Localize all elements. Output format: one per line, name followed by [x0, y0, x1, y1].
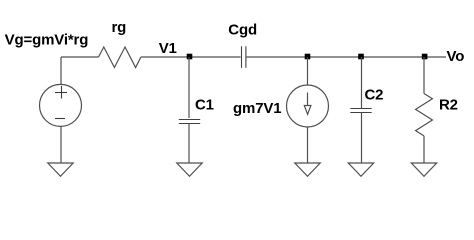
wire junction down to C2: [361, 57, 363, 108]
junction at C2: [358, 54, 364, 60]
svg-text:C1: C1: [195, 96, 214, 113]
junction at V1: [187, 54, 193, 60]
capacitor Cgd: [242, 46, 246, 68]
current source gm7V1 circle: [287, 85, 329, 127]
svg-text:C2: C2: [365, 86, 384, 103]
wire V1 node down to C1: [188, 57, 190, 118]
svg-text:V1: V1: [159, 40, 177, 57]
junction at current source: [305, 54, 311, 60]
ground under C2: [348, 163, 373, 176]
capacitor C1: [179, 120, 200, 124]
ground under C1: [177, 163, 202, 176]
ground under R2: [411, 163, 436, 176]
wire voltage source top: [60, 57, 62, 85]
svg-text:Cgd: Cgd: [228, 22, 257, 39]
svg-text:Vg=gmVi*rg: Vg=gmVi*rg: [5, 32, 89, 49]
voltage source V circle: [40, 84, 82, 126]
ground under current source: [295, 163, 320, 176]
resistor R2: [416, 94, 433, 136]
svg-text:R2: R2: [439, 97, 458, 114]
wire junction down to R2: [423, 57, 425, 94]
wire from Cgd right plate to Vo: [246, 56, 446, 58]
wire junction down to current source: [307, 57, 309, 85]
capacitor C2: [350, 109, 371, 113]
wire R2 to ground: [423, 136, 425, 163]
wire C2 to ground: [361, 113, 363, 164]
resistor rg: [99, 47, 141, 68]
voltage source plus sign: [55, 86, 67, 99]
current source arrow: [304, 93, 311, 115]
voltage source minus sign: [55, 118, 65, 120]
wire main horizontal left segment: [61, 56, 99, 58]
wire C1 to ground: [188, 124, 190, 164]
junction at R2: [422, 54, 428, 60]
svg-text:Vo: Vo: [447, 48, 465, 65]
svg-text:gm7V1: gm7V1: [233, 100, 281, 117]
wire voltage source bottom: [60, 126, 62, 163]
wire current source to ground: [307, 127, 309, 163]
svg-text:rg: rg: [112, 19, 127, 36]
wire from rg to Cgd left plate: [141, 56, 241, 58]
ground under voltage source: [48, 163, 73, 176]
